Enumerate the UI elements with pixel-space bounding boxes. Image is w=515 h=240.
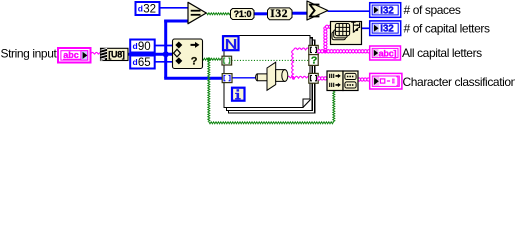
svg-text:I32: I32 <box>380 24 394 35</box>
for loop shadow card 2 <box>229 40 315 113</box>
svg-text:?1:0: ?1:0 <box>234 9 252 19</box>
svg-text:# of spaces: # of spaces <box>404 3 461 17</box>
svg-text:?: ? <box>311 55 317 67</box>
svg-text:I32: I32 <box>380 5 394 16</box>
svg-text:abc]: abc] <box>379 48 397 58</box>
tunnel: string array out (right bottom) <box>309 73 318 83</box>
wire: d32 to equals <box>160 7 188 9</box>
loop iteration terminal i <box>232 88 245 101</box>
svg-text:abc: abc <box>63 50 79 60</box>
junction on boolean wire <box>207 57 211 61</box>
wire: bus vertical + branch up to equals + branch down to loop tunnel <box>164 20 167 79</box>
indicator: All capital letters <box>370 46 401 60</box>
constant d32 <box>136 2 160 16</box>
wire: I32 conversion to sum <box>292 12 308 15</box>
dog-ear fold diagonal <box>303 99 311 107</box>
tunnel: u8 array in (left, blue) <box>222 74 232 83</box>
loop count terminal N <box>223 36 239 50</box>
for loop shadow card 1 <box>226 38 312 111</box>
wire: count icon to "# of capital letters" indicator <box>362 27 370 29</box>
svg-text:I32: I32 <box>270 8 288 20</box>
node: equals <box>188 2 206 23</box>
indicator: Character classification <box>370 73 402 89</box>
wire: boolean array routed below loop <box>208 59 210 121</box>
indicator: # of capital letters <box>370 21 401 36</box>
svg-text:All capital letters: All capital letters <box>402 46 482 60</box>
node: count capital letters (grid + search icon) <box>331 22 362 45</box>
wire: string scalar wavy, funnel out <box>287 48 310 78</box>
node: ?1:0 (boolean to 0,1) <box>231 9 255 20</box>
control: String input (pink string control) <box>58 48 91 63</box>
constant d65 <box>130 56 155 70</box>
node: sum of array elements <box>307 1 328 20</box>
case selector ? <box>309 55 318 67</box>
wire: ?1:0 to I32 conversion (i16 array) <box>254 12 268 15</box>
svg-text:# of capital letters: # of capital letters <box>404 21 490 35</box>
wire: branch up to count icon <box>324 27 327 30</box>
svg-text:?: ? <box>191 56 198 68</box>
wire: string array to "All capital letters" <box>318 50 321 53</box>
for loop front card (dog-eared page) <box>224 36 310 108</box>
wire: string->byte-array output bus (u8 array, thick blue) <box>128 53 167 56</box>
tunnel: string array out (right top) <box>309 45 318 54</box>
wire: d90 to in-range upper <box>156 45 173 47</box>
wire: sum to "# of spaces" indicator <box>328 10 370 12</box>
node: string to byte array [U8] <box>101 48 129 60</box>
wire: string array to classify node <box>318 77 321 80</box>
wire: boolean array zigzag, equals -> ?1:0 <box>202 13 335 124</box>
tunnel: boolean array in (left, green) <box>222 56 232 65</box>
wire: d65 to in-range lower <box>156 61 173 63</box>
svg-text:90: 90 <box>138 41 151 53</box>
junction on byte-array bus <box>163 52 168 57</box>
svg-text:Character classification: Character classification <box>403 75 515 89</box>
constant d90 <box>130 40 155 54</box>
svg-text:65: 65 <box>138 57 151 69</box>
wire: u8 scalar to funnel <box>232 77 257 79</box>
node: byte array to string (funnel) <box>256 62 288 90</box>
node: classify characters (array build) <box>327 71 358 91</box>
junction on string wire <box>292 77 295 80</box>
svg-text:[U8]: [U8] <box>108 50 125 60</box>
svg-text:32: 32 <box>143 4 156 16</box>
svg-text:String input: String input <box>1 46 58 60</box>
wire: string control to byte-array node (wavy) <box>91 52 102 54</box>
wire: boolean array, in-range -> loop left tunnel <box>202 58 221 60</box>
node: in range and coerce <box>173 39 203 69</box>
indicator: # of spaces <box>370 3 401 18</box>
wire: boolean scalar (dotted) to case selector <box>232 59 310 61</box>
node: to I32 conversion <box>268 8 293 20</box>
wire: classify node to indicator <box>358 78 361 81</box>
